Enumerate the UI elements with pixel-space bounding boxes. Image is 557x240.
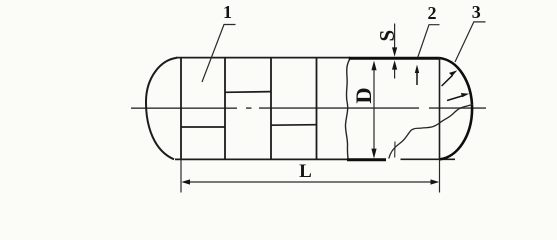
weld seam vertical x=225: [224, 58, 226, 160]
weld seam vertical x=181: [180, 58, 182, 160]
svg-text:L: L: [299, 161, 312, 182]
dimension S line upper: [394, 24, 396, 51]
dimension L line: [188, 181, 433, 183]
D bottom arrowhead (down): [371, 149, 376, 159]
leader 1: [202, 25, 236, 83]
svg-text:2: 2: [428, 3, 437, 23]
course B upper weld: [225, 91, 271, 94]
weld seam vertical x=271: [270, 58, 272, 160]
casing thick top line: [349, 57, 440, 60]
internal arrow diag 2: [447, 96, 463, 101]
bottom line right of break: [401, 158, 456, 160]
svg-text:S: S: [375, 30, 399, 42]
S lower arrow tail: [394, 66, 396, 79]
L right arrowhead: [431, 179, 440, 184]
dimension D line: [373, 66, 375, 153]
right head (thick): [440, 58, 473, 159]
tick near bottom break: [394, 142, 396, 158]
course C lower weld: [271, 124, 317, 127]
shell bottom line: [175, 158, 348, 160]
break line 1 (wavy): [345, 59, 349, 159]
L extension line left: [180, 159, 182, 192]
right junction vertical: [439, 58, 441, 159]
svg-text:D: D: [351, 87, 376, 103]
casing thick bottom segment: [347, 158, 386, 161]
course A lower weld: [181, 126, 225, 128]
shell top line: [176, 57, 350, 59]
centerline: [131, 107, 486, 109]
weld seam vertical x=316.5: [316, 58, 318, 160]
svg-text:3: 3: [472, 2, 481, 22]
svg-text:1: 1: [223, 2, 232, 22]
D top arrowhead (up): [371, 61, 376, 71]
break line 2 (wavy, in head region): [389, 104, 473, 158]
S upper arrowhead (down): [392, 47, 397, 56]
internal arrow diag 1: [442, 75, 453, 86]
leader 3: [455, 22, 486, 62]
leader 2: [418, 25, 440, 58]
L extension line right: [439, 159, 441, 192]
left head: [146, 58, 177, 160]
internal arrow up: [416, 70, 418, 85]
S lower arrowhead (up): [392, 60, 397, 69]
L left arrowhead: [181, 179, 190, 184]
